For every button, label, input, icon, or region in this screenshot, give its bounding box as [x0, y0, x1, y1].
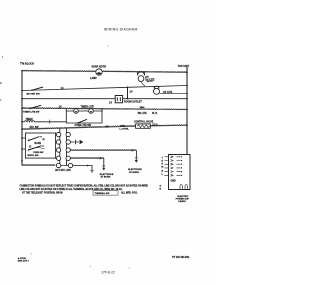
svg-text:ALL MFD. POS.: ALL MFD. POS.	[121, 191, 138, 194]
wire row5 link	[61, 165, 69, 167]
wire row3 to electrode 1	[70, 149, 136, 151]
connector circle row3 right	[66, 148, 70, 152]
svg-text:HOT SFC LITE: HOT SFC LITE	[55, 170, 71, 172]
electrode 1 arrow	[135, 157, 138, 160]
junction cross on timer wire	[49, 120, 51, 124]
svg-text:AT THE "RELEASE" POSITION. SW: AT THE "RELEASE" POSITION. SW IN	[22, 191, 63, 194]
node dots on right bus	[186, 72, 188, 127]
convenience outlet (receptacle)	[115, 96, 122, 103]
svg-text:T'M BLOCK: T'M BLOCK	[20, 62, 34, 66]
lamp OV LITE no.2 (between rail A and rail C)	[154, 87, 159, 89]
speck top left	[2, 56, 3, 57]
svg-text:OVN: OVN	[120, 125, 125, 127]
svg-text:17F-8-12: 17F-8-12	[101, 270, 115, 274]
speck center	[108, 46, 109, 47]
wire valve to right bus	[150, 124, 187, 127]
svg-text:BR LITE: BR LITE	[138, 113, 147, 115]
connector circle row4 left	[56, 156, 60, 160]
svg-text:AT BURN: AT BURN	[101, 176, 111, 179]
svg-text:ELECTRODE: ELECTRODE	[128, 169, 142, 171]
node dots on left bus	[21, 70, 23, 161]
svg-text:E: E	[162, 161, 164, 163]
wire vertical V2	[66, 128, 68, 165]
svg-text:BR UNIT SW: BR UNIT SW	[27, 93, 41, 95]
svg-text:CONNECTOR SYMBOLS DO NOT REFLE: CONNECTOR SYMBOLS DO NOT REFLECT TRUE CO…	[20, 184, 149, 187]
svg-text:OV LITE: OV LITE	[163, 91, 173, 94]
TB1 pins	[165, 156, 181, 177]
connector circle row1 left	[56, 132, 60, 136]
wire lamp loop (parallel branch)	[66, 109, 102, 124]
lamp timer lite (left in loop)	[74, 109, 79, 114]
wire rail F (hatched, to control valve)	[22, 126, 136, 129]
svg-text:WIRING DIAGRAM: WIRING DIAGRAM	[104, 28, 138, 32]
lamp oven lite (right in loop)	[89, 109, 94, 114]
selector switch box (bake/broil)	[25, 133, 55, 158]
TB1 bottom coils	[180, 185, 182, 190]
svg-text:DRG 1OF 1: DRG 1OF 1	[18, 261, 30, 263]
lamp surface pilot (circle on top rail)	[96, 69, 102, 75]
svg-text:M: M	[162, 167, 164, 169]
connector circle row5 left	[56, 163, 60, 167]
svg-text:L: L	[162, 174, 164, 176]
svg-text:OVEN LITE SW: OVEN LITE SW	[75, 125, 92, 127]
wire bus to box stubs	[22, 138, 26, 149]
connector circle row2 left	[56, 140, 60, 144]
switch S1 surface unit sw (blade)	[32, 87, 43, 90]
switch S4 contact dots	[43, 138, 45, 140]
svg-text:R: R	[162, 164, 164, 166]
svg-text:3841: 3841	[140, 106, 146, 109]
switch S5 broil	[29, 146, 42, 150]
svg-text:THERMAL SW: THERMAL SW	[95, 192, 111, 195]
terminal block TB1	[169, 155, 191, 190]
connector circle row3 left	[56, 148, 60, 152]
TB1 pin dots	[181, 156, 182, 176]
speck near handwriting	[90, 266, 91, 267]
svg-text:CONTROL VALVE: CONTROL VALVE	[134, 121, 154, 124]
connector circle row1 right	[66, 132, 70, 136]
wire row4 to electrode 2	[70, 157, 103, 159]
lamp OV LITE no.1 (between top rail and rail A)	[138, 72, 145, 75]
svg-text:TIMER LITE SW: TIMER LITE SW	[23, 111, 40, 113]
wire box to plug stubs	[55, 142, 58, 158]
svg-text:B: B	[162, 171, 164, 173]
connector circle row5 right	[68, 163, 72, 167]
wire row5 to chassis electrode	[73, 166, 92, 171]
switch S2 oven lite sw	[30, 105, 41, 108]
svg-text:N: N	[160, 189, 162, 191]
svg-text:ELECTRODE: ELECTRODE	[100, 174, 114, 176]
svg-text:24 OV: 24 OV	[147, 80, 154, 83]
svg-text:G: G	[160, 186, 162, 188]
svg-text:14: 14	[109, 101, 112, 105]
svg-text:BAKE: BAKE	[35, 142, 42, 145]
svg-text:BROIL SW: BROIL SW	[28, 155, 40, 157]
chassis electrode symbol	[90, 170, 93, 172]
speck above drawing number	[31, 254, 32, 255]
wire lamp2 to right bus	[159, 92, 187, 94]
wire left bus	[21, 71, 23, 166]
plug symbol row2	[70, 140, 82, 144]
connector circle row2 right	[66, 140, 70, 144]
svg-text:LEADS: LEADS	[178, 200, 186, 203]
svg-text:AT BURN: AT BURN	[129, 171, 139, 174]
switch arc detail	[30, 148, 45, 150]
wire stub junction x127.5 railA->railC	[127, 87, 129, 98]
svg-text:ROOM OUTLET: ROOM OUTLET	[124, 100, 142, 103]
electrode 2 arrow	[103, 158, 105, 165]
svg-text:TOP UNIT: TOP UNIT	[178, 65, 190, 68]
control valve (box with coil)	[136, 124, 151, 128]
wire rail A	[22, 86, 187, 91]
switch S4 bake	[29, 137, 40, 141]
speck left edge b	[0, 99, 1, 100]
wire rail C	[22, 98, 187, 100]
svg-text:GND: GND	[171, 180, 176, 182]
svg-text:1/2 A: 1/2 A	[152, 123, 158, 126]
svg-text:SURF HDTR: SURF HDTR	[92, 65, 107, 68]
speck left edge a	[0, 82, 2, 84]
svg-text:LAMP: LAMP	[90, 77, 97, 80]
connector circle row4 right	[66, 156, 70, 160]
wire right bus	[186, 67, 188, 155]
svg-text:14: 14	[130, 90, 133, 94]
svg-text:SFC SW: SFC SW	[30, 127, 40, 129]
wire top rail L1 (hatched)	[22, 71, 187, 73]
svg-text:OVEN SW: OVEN SW	[33, 152, 44, 154]
timer motor coil M1	[22, 121, 66, 122]
svg-text:TIMER LITE: TIMER LITE	[81, 106, 95, 109]
svg-text:PT 145 494-P91: PT 145 494-P91	[172, 256, 190, 259]
note checkbox	[93, 191, 118, 196]
burner unit plug columns: wire vertical V1	[59, 128, 61, 165]
svg-text:PL B: PL B	[152, 113, 158, 115]
svg-text:T: T	[162, 158, 164, 160]
switch S3 in loop bottom branch	[78, 119, 87, 123]
svg-text:L CNTRL: L CNTRL	[120, 128, 130, 130]
wire rail D (hatched)	[22, 108, 187, 109]
